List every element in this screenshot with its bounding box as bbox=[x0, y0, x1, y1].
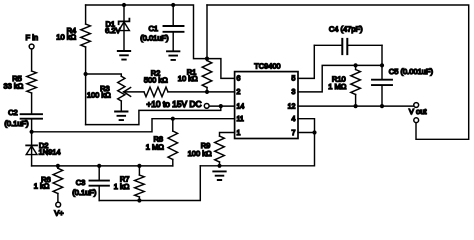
svg-text:1 MΩ: 1 MΩ bbox=[328, 82, 347, 91]
svg-text:C3: C3 bbox=[76, 178, 86, 187]
svg-text:C1: C1 bbox=[149, 24, 159, 33]
svg-text:7: 7 bbox=[291, 130, 295, 137]
svg-text:3: 3 bbox=[291, 89, 295, 96]
svg-text:6.2V: 6.2V bbox=[105, 26, 120, 35]
svg-text:6: 6 bbox=[237, 76, 241, 83]
svg-text:F in: F in bbox=[26, 33, 39, 42]
svg-text:+10 to 15V DC: +10 to 15V DC bbox=[146, 99, 201, 109]
svg-text:V+: V+ bbox=[54, 208, 64, 217]
svg-text:11: 11 bbox=[237, 116, 244, 123]
svg-text:500 kΩ: 500 kΩ bbox=[144, 75, 168, 84]
svg-text:5: 5 bbox=[291, 76, 295, 83]
svg-text:100 kΩ: 100 kΩ bbox=[87, 90, 111, 99]
svg-text:1 kΩ: 1 kΩ bbox=[114, 182, 130, 191]
svg-text:(0.1uF): (0.1uF) bbox=[4, 119, 29, 128]
svg-text:(0.1uF): (0.1uF) bbox=[72, 188, 97, 197]
svg-text:(0.01uF): (0.01uF) bbox=[140, 34, 169, 43]
svg-text:2: 2 bbox=[237, 89, 241, 96]
svg-text:C4 (47pF): C4 (47pF) bbox=[329, 24, 363, 33]
svg-text:1: 1 bbox=[237, 130, 241, 137]
svg-text:1N914: 1N914 bbox=[39, 147, 61, 156]
svg-text:4: 4 bbox=[291, 116, 295, 123]
svg-text:100 kΩ: 100 kΩ bbox=[188, 149, 212, 158]
svg-text:14: 14 bbox=[237, 103, 245, 110]
svg-text:12: 12 bbox=[288, 103, 296, 110]
svg-text:33 kΩ: 33 kΩ bbox=[4, 81, 24, 90]
svg-text:10 kΩ: 10 kΩ bbox=[178, 74, 198, 83]
svg-text:10 kΩ: 10 kΩ bbox=[56, 32, 76, 41]
svg-text:V out: V out bbox=[409, 107, 427, 116]
svg-text:TC9400: TC9400 bbox=[254, 62, 280, 71]
svg-text:1 kΩ: 1 kΩ bbox=[34, 182, 50, 191]
svg-text:C5 (0.001uF): C5 (0.001uF) bbox=[389, 67, 434, 76]
svg-text:1 MΩ: 1 MΩ bbox=[146, 142, 165, 151]
svg-text:C2: C2 bbox=[8, 108, 18, 117]
